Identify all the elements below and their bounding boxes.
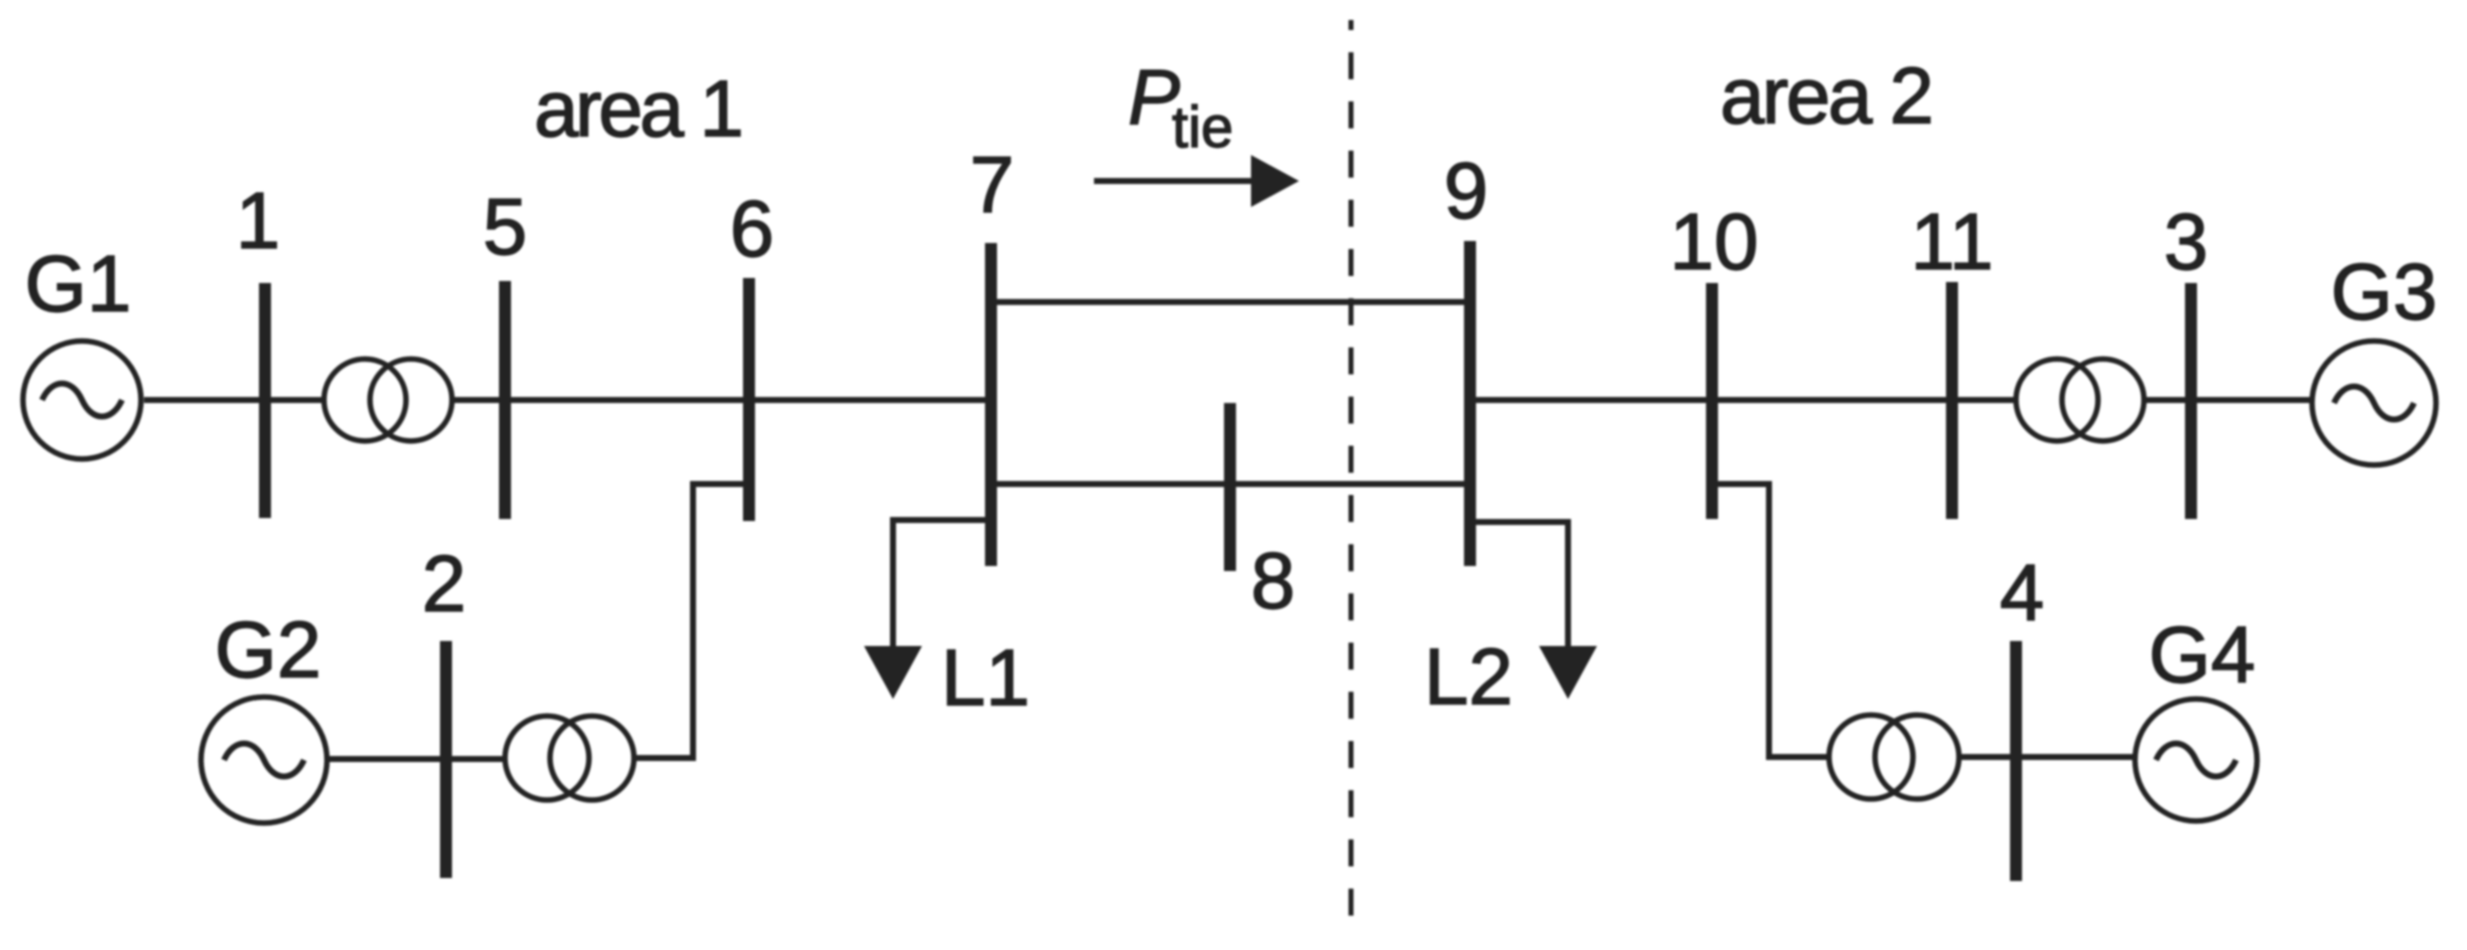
svg-text:area 1: area 1 — [534, 64, 744, 153]
svg-text:11: 11 — [1910, 197, 1993, 286]
svg-text:4: 4 — [2000, 548, 2045, 637]
svg-text:8: 8 — [1251, 536, 1296, 625]
svg-text:9: 9 — [1444, 146, 1489, 235]
svg-text:tie: tie — [1172, 95, 1233, 160]
svg-text:L2: L2 — [1424, 632, 1513, 721]
svg-text:1: 1 — [236, 176, 281, 265]
svg-text:3: 3 — [2164, 197, 2209, 286]
svg-text:5: 5 — [483, 182, 528, 271]
svg-text:6: 6 — [730, 184, 775, 273]
svg-text:area 2: area 2 — [1720, 51, 1934, 140]
svg-text:G3: G3 — [2331, 247, 2438, 336]
svg-text:G1: G1 — [25, 239, 132, 328]
svg-text:7: 7 — [970, 140, 1015, 229]
svg-text:L1: L1 — [941, 633, 1030, 722]
svg-text:2: 2 — [422, 539, 467, 628]
svg-text:10: 10 — [1670, 197, 1759, 286]
svg-text:G2: G2 — [215, 605, 322, 694]
svg-text:G4: G4 — [2149, 610, 2256, 699]
